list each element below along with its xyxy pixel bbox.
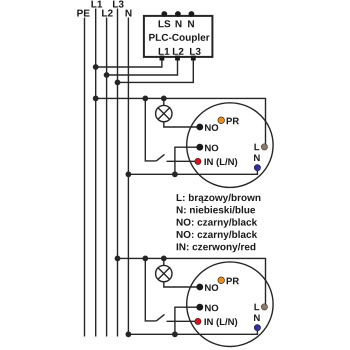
label L2 — [173, 48, 184, 55]
label bus L3 — [113, 1, 124, 8]
terminal NO2 device 1 — [196, 144, 203, 151]
legend line 5 — [177, 243, 256, 252]
label N top 1 — [176, 20, 182, 27]
bus L1 — [95, 9, 97, 337]
wire lamp E1 top — [163, 98, 165, 105]
node N bus tap 2 — [125, 331, 131, 337]
terminal IN device 2 — [195, 318, 201, 324]
label bus L1 — [91, 1, 102, 8]
node N bus tap 1 — [125, 171, 131, 177]
device U1 circle — [187, 103, 273, 188]
terminal PR device 2 — [218, 277, 225, 284]
legend line 2 — [177, 206, 255, 213]
label L1 — [159, 48, 170, 55]
wire PLC L2 to bus L2 — [107, 59, 178, 75]
wire NO2 to N, device 1 — [175, 147, 200, 174]
wire PLC L3 to bus L3 — [118, 59, 194, 82]
label bus PE — [77, 10, 89, 17]
node L1 to PLC — [93, 64, 99, 70]
wire lamp E2 to NO — [164, 282, 200, 287]
wire switch S1 to IN — [167, 160, 198, 162]
terminal PR device 1 — [218, 117, 225, 124]
terminal L2 square — [175, 56, 180, 61]
legend line 4 — [177, 231, 257, 240]
terminal N device 2 — [254, 325, 260, 331]
node switch tap 2 — [142, 256, 148, 262]
switch S2 — [145, 258, 156, 321]
wire NO2 to N, device 2 — [175, 307, 200, 334]
bus L2 — [106, 18, 108, 337]
legend line 1 — [177, 194, 261, 203]
wire N device 1 — [128, 168, 257, 175]
wire feed device 1 — [96, 98, 266, 146]
terminal L1 square — [160, 56, 165, 61]
label PLC-Coupler — [149, 34, 209, 43]
terminal NO1 device 2 — [196, 284, 203, 291]
terminal NO2 device 2 — [196, 304, 203, 311]
node feed tap 2 — [115, 256, 121, 262]
node switch tap 1 — [142, 96, 148, 102]
bus N — [127, 18, 129, 335]
lamp E2 — [156, 265, 172, 281]
node lamp tap 1 — [161, 96, 167, 102]
switch S1 — [145, 98, 156, 160]
terminal N device 1 — [254, 165, 260, 171]
terminal L device 2 — [261, 304, 267, 310]
terminal L3 square — [191, 56, 196, 61]
terminal LS — [161, 11, 167, 17]
node NO2 junction 2 — [172, 331, 178, 337]
terminal N top 2 — [189, 11, 195, 17]
wire switch S2 to IN — [167, 320, 198, 322]
wire feed device 2 — [118, 258, 266, 307]
node L3 to PLC — [115, 80, 121, 86]
node lamp tap 2 — [161, 256, 167, 262]
wire PLC L1 to bus L1 — [96, 59, 162, 67]
bus PE — [84, 18, 86, 337]
terminal L device 1 — [261, 144, 267, 150]
wire lamp E1 to NO — [164, 122, 200, 127]
wire N device 2 — [128, 328, 257, 335]
label bus L2 — [102, 10, 113, 17]
label bus N — [126, 10, 132, 17]
device U2 circle — [187, 262, 273, 347]
PLC-Coupler U1 — [144, 16, 213, 57]
label L3 — [190, 48, 201, 55]
label N top 2 — [188, 20, 194, 27]
terminal N top 1 — [175, 11, 181, 17]
label LS — [159, 20, 171, 27]
bus L3 — [117, 9, 119, 337]
terminal NO1 device 1 — [196, 124, 203, 131]
node L2 to PLC — [104, 72, 110, 78]
node feed tap 1 — [93, 96, 99, 102]
terminal IN device 1 — [195, 158, 201, 164]
node NO2 junction 1 — [172, 171, 178, 177]
legend line 3 — [177, 218, 257, 227]
wire lamp E2 top — [163, 258, 165, 265]
lamp E1 — [156, 105, 172, 121]
